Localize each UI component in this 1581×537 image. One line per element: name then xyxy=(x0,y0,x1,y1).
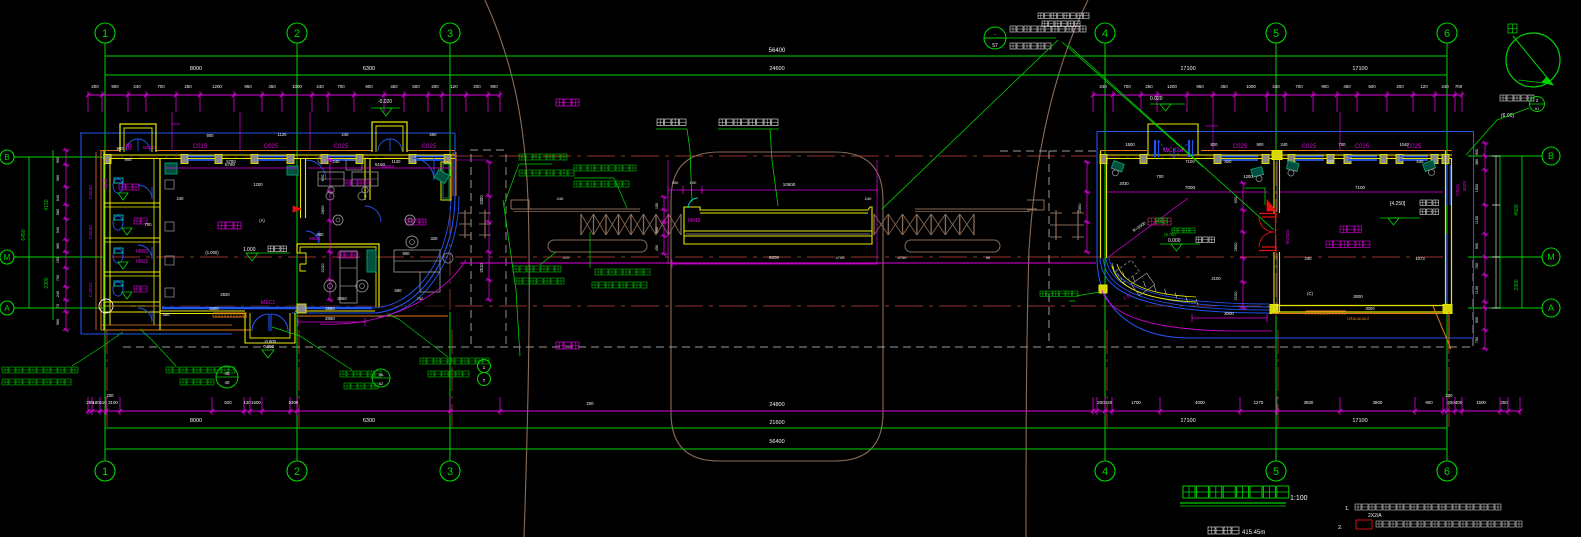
svg-text:200: 200 xyxy=(1446,393,1454,398)
axis4 top white note xyxy=(1038,13,1089,27)
left building room label office xyxy=(406,219,426,225)
factory boundary label bottom xyxy=(556,342,579,349)
svg-text:3: 3 xyxy=(447,466,453,478)
svg-text:24800: 24800 xyxy=(769,402,784,408)
right building east dim chains xyxy=(1475,141,1500,351)
top leader diagonal to middle door xyxy=(1068,45,1274,230)
left building interior door arcs xyxy=(306,158,434,222)
road edge curve left xyxy=(485,0,529,537)
svg-text:500: 500 xyxy=(412,84,420,89)
svg-text:3000: 3000 xyxy=(1224,311,1234,316)
svg-text:200: 200 xyxy=(107,393,115,398)
svg-text:900: 900 xyxy=(365,84,373,89)
right building leader notes inside xyxy=(1156,218,1195,237)
svg-text:1100: 1100 xyxy=(1475,286,1479,294)
svg-text:21600: 21600 xyxy=(769,420,784,426)
area note xyxy=(1208,527,1265,536)
svg-text:C5040: C5040 xyxy=(88,185,94,199)
svg-text:450: 450 xyxy=(1220,84,1228,89)
svg-text:120: 120 xyxy=(450,84,458,89)
left building apron line orange xyxy=(297,315,448,317)
north arrow xyxy=(1506,24,1560,87)
svg-text:960: 960 xyxy=(56,319,60,325)
left building room label reception xyxy=(338,252,358,258)
callout auto sensing gate xyxy=(718,119,779,206)
grid axis M horizontal right xyxy=(1468,248,1560,266)
svg-text:8000: 8000 xyxy=(769,255,780,260)
svg-text:410: 410 xyxy=(99,400,107,405)
svg-text:70: 70 xyxy=(56,304,60,308)
svg-text:5780: 5780 xyxy=(226,159,236,164)
svg-text:2300: 2300 xyxy=(44,277,50,288)
svg-text:450: 450 xyxy=(390,84,398,89)
left building room label meeting xyxy=(344,180,371,186)
svg-text:3500: 3500 xyxy=(1304,400,1314,405)
dimension tick row bottom right xyxy=(1091,397,1522,415)
svg-text:2850: 2850 xyxy=(325,306,335,311)
axis datum line A (dark red dash-dot) xyxy=(455,305,1270,307)
svg-text:1073: 1073 xyxy=(1415,256,1425,261)
svg-text:200: 200 xyxy=(473,84,481,89)
axis datum line M (dark red dash-dot) xyxy=(112,256,1443,258)
axis datum verticals below buildings xyxy=(107,330,1449,427)
gate slot right (stadium) xyxy=(905,240,1000,252)
svg-text:2510: 2510 xyxy=(479,263,484,273)
svg-text:C040: C040 xyxy=(103,178,108,189)
svg-text:C025: C025 xyxy=(1233,144,1248,150)
svg-text:1: 1 xyxy=(102,466,108,478)
right building ramp dashed boxes xyxy=(1116,260,1155,296)
svg-text:560: 560 xyxy=(395,288,403,293)
right building west wall xyxy=(1099,151,1107,293)
sliding fence right (X pattern) xyxy=(874,214,974,235)
svg-text:900: 900 xyxy=(403,251,411,256)
svg-text:1150: 1150 xyxy=(1475,216,1479,224)
svg-text:320: 320 xyxy=(431,236,439,241)
svg-text:650: 650 xyxy=(320,174,325,181)
svg-text:C025: C025 xyxy=(1455,184,1461,196)
grid axis B horizontal left xyxy=(0,150,103,164)
svg-text:[4.250]: [4.250] xyxy=(1390,201,1406,207)
svg-text:900: 900 xyxy=(655,227,659,233)
left building floor level mark xyxy=(243,246,290,261)
grid axis A horizontal right xyxy=(1468,299,1560,317)
svg-text:1120: 1120 xyxy=(277,132,287,137)
svg-text:6300: 6300 xyxy=(289,400,299,405)
svg-text:560: 560 xyxy=(56,209,60,215)
svg-text:240: 240 xyxy=(557,196,564,201)
svg-text:120: 120 xyxy=(1420,84,1428,89)
svg-text:C025: C025 xyxy=(1407,144,1422,150)
right building bottom hatch strip xyxy=(1306,311,1346,315)
callout curve wall xyxy=(388,314,491,386)
svg-text:57: 57 xyxy=(992,43,998,49)
svg-text:17100: 17100 xyxy=(1352,418,1367,424)
svg-text:2850: 2850 xyxy=(325,316,335,321)
svg-text:56400: 56400 xyxy=(769,439,784,445)
right building top wall xyxy=(1100,151,1452,164)
svg-text:700: 700 xyxy=(1475,263,1479,269)
svg-text:(6.00): (6.00) xyxy=(1164,232,1176,237)
svg-text:6300: 6300 xyxy=(363,66,375,72)
svg-text:4: 4 xyxy=(1102,28,1108,40)
svg-text:2X2/A: 2X2/A xyxy=(1368,513,1382,519)
svg-text:C025: C025 xyxy=(422,144,437,150)
svg-text:M: M xyxy=(4,253,11,262)
svg-text:4150: 4150 xyxy=(44,199,50,210)
svg-text:3300: 3300 xyxy=(209,306,219,311)
grid axis 4 vertical xyxy=(1104,43,1106,461)
svg-text:150: 150 xyxy=(655,203,659,209)
svg-text:700: 700 xyxy=(337,84,345,89)
dimension tick row bottom left xyxy=(86,397,502,415)
callout ground sensor xyxy=(574,165,636,208)
svg-text:5: 5 xyxy=(1273,28,1279,40)
svg-text:-0.800: -0.800 xyxy=(264,339,277,344)
svg-text:250: 250 xyxy=(1500,400,1508,405)
svg-text:2830: 2830 xyxy=(220,292,230,297)
svg-text:360: 360 xyxy=(56,243,60,249)
svg-text:400: 400 xyxy=(1455,400,1463,405)
top callout text block xyxy=(1006,26,1086,49)
svg-text:6: 6 xyxy=(1444,28,1450,40)
site boundary dashed xyxy=(123,150,1473,347)
svg-text:1000: 1000 xyxy=(1246,84,1256,89)
grid bubble 3 bottom xyxy=(440,461,460,481)
svg-text:2800: 2800 xyxy=(320,205,325,215)
svg-text:A: A xyxy=(4,304,10,313)
svg-text:C025: C025 xyxy=(1355,144,1370,150)
right building entry bay MC024 xyxy=(1148,124,1198,158)
svg-text:900: 900 xyxy=(111,84,119,89)
grid bubble 3 top xyxy=(440,23,460,43)
grid axis 6 vertical xyxy=(1446,43,1448,461)
svg-text:M015: M015 xyxy=(688,218,701,224)
svg-text:9020: 9020 xyxy=(1462,180,1467,191)
svg-text:960: 960 xyxy=(56,175,60,181)
svg-text:1500: 1500 xyxy=(1475,184,1479,192)
svg-text:(A): (A) xyxy=(259,218,265,223)
svg-text:900: 900 xyxy=(490,84,498,89)
right building bottom interior dim xyxy=(1192,311,1267,322)
svg-text:M022: M022 xyxy=(143,145,155,151)
svg-text:M1524: M1524 xyxy=(1285,229,1291,244)
svg-text:(C): (C) xyxy=(1307,291,1313,296)
svg-text:540: 540 xyxy=(1417,159,1425,164)
svg-text:620: 620 xyxy=(224,400,232,405)
right building red double door xyxy=(1259,200,1291,251)
svg-text:3800: 3800 xyxy=(1373,400,1383,405)
callout door mid xyxy=(272,327,390,389)
svg-text:2100: 2100 xyxy=(1233,291,1238,301)
grid bubble 5 top xyxy=(1266,23,1286,43)
right storey dim frame green xyxy=(1500,156,1522,308)
svg-text:1200: 1200 xyxy=(253,182,263,187)
svg-text:450: 450 xyxy=(1343,84,1351,89)
axis datum line B (dark red dash-dot) xyxy=(455,155,1096,157)
top leader diagonal to guard room xyxy=(1062,42,1203,167)
svg-text:7100: 7100 xyxy=(1355,185,1366,190)
svg-text:240: 240 xyxy=(133,84,141,89)
svg-text:3100: 3100 xyxy=(108,400,118,405)
svg-text:240: 240 xyxy=(1099,84,1107,89)
center extra white labels xyxy=(557,196,908,260)
svg-text:M1C1: M1C1 xyxy=(261,300,276,306)
svg-text:700: 700 xyxy=(1455,84,1463,89)
svg-text:2350: 2350 xyxy=(1077,203,1082,213)
svg-text:17100: 17100 xyxy=(1352,66,1367,72)
left building room label main xyxy=(218,222,241,229)
svg-text:2100: 2100 xyxy=(320,263,325,273)
svg-text:900: 900 xyxy=(1475,243,1479,249)
right building exterior racks xyxy=(1050,210,1084,240)
svg-text:6450: 6450 xyxy=(21,229,27,240)
callout wall extension xyxy=(513,252,564,284)
left building exterior racks xyxy=(459,210,491,238)
gate rail left segment (brown) xyxy=(511,200,640,212)
driveway island arch xyxy=(671,152,883,461)
left building partition walls xyxy=(301,158,452,218)
left building extra dims xyxy=(117,132,439,317)
left building west rooms block (toilets) xyxy=(99,151,160,330)
grid axis 5 vertical xyxy=(1275,43,1277,461)
svg-text:900: 900 xyxy=(1475,317,1479,323)
left building inner office room xyxy=(297,231,424,326)
right building interior dim lines xyxy=(1077,160,1443,310)
toilet room labels xyxy=(88,178,149,297)
svg-text:240: 240 xyxy=(865,196,872,201)
svg-text:240: 240 xyxy=(342,132,350,137)
right building top windows xyxy=(1205,112,1428,160)
overall dimension line bottom total xyxy=(105,439,1447,449)
road edge curve right xyxy=(1026,0,1088,537)
callout sliding door xyxy=(656,119,692,202)
svg-text:8000: 8000 xyxy=(190,418,202,424)
svg-text:4000: 4000 xyxy=(1195,400,1205,405)
svg-text:700: 700 xyxy=(145,222,153,227)
left building top wall xyxy=(101,151,455,164)
sliding fence left (X pattern) xyxy=(581,214,681,235)
svg-text:1200: 1200 xyxy=(1167,84,1177,89)
svg-text:300: 300 xyxy=(672,180,679,185)
svg-text:1000: 1000 xyxy=(292,84,302,89)
right building bottom wall xyxy=(1270,305,1452,314)
svg-text:250: 250 xyxy=(184,84,192,89)
right building ramp at SW xyxy=(1112,263,1198,305)
left building west dim chain xyxy=(56,148,70,332)
gate canopy structure yellow xyxy=(684,198,872,244)
left storey dim frame green xyxy=(21,150,53,320)
callout bottom far left xyxy=(2,332,123,385)
svg-text:2300: 2300 xyxy=(479,195,484,205)
svg-text:-0.900: -0.900 xyxy=(262,344,275,349)
elevation marker top left xyxy=(371,99,400,116)
gate slot left (stadium) xyxy=(548,240,647,252)
left building interior vertical dim xyxy=(320,158,334,302)
svg-text:240: 240 xyxy=(1281,142,1289,147)
svg-text:200: 200 xyxy=(587,401,595,406)
left building blue outline xyxy=(81,132,459,334)
svg-text:940: 940 xyxy=(56,227,60,233)
svg-text:1500: 1500 xyxy=(1476,400,1486,405)
svg-text:1040: 1040 xyxy=(1399,142,1409,147)
svg-text:240: 240 xyxy=(1441,84,1449,89)
left building top windows xyxy=(172,112,443,160)
svg-text:900: 900 xyxy=(125,157,133,162)
svg-text:2100: 2100 xyxy=(1211,276,1221,281)
svg-text:200: 200 xyxy=(1396,84,1404,89)
left building entry bay 1 (top) xyxy=(120,124,156,152)
svg-text:45: 45 xyxy=(224,371,230,376)
left building bottom wall xyxy=(110,304,452,314)
right building extra dims xyxy=(1119,142,1425,299)
grid bubble 4 top xyxy=(1095,23,1115,43)
left building SE magenta arc xyxy=(320,260,466,324)
right building door leader xyxy=(1244,188,1265,205)
svg-text:(1.000): (1.000) xyxy=(205,250,219,255)
svg-text:4700: 4700 xyxy=(836,255,846,260)
grid bubble 5 bottom xyxy=(1266,461,1286,481)
svg-text:1120: 1120 xyxy=(391,159,401,164)
svg-text:C025: C025 xyxy=(334,144,349,150)
axis datum vertical axis5 through right building xyxy=(1275,162,1277,330)
svg-text:400: 400 xyxy=(163,312,171,317)
toilet fixtures cyan xyxy=(113,178,174,297)
overall dimension line top total xyxy=(105,48,1447,56)
svg-text:450: 450 xyxy=(268,84,276,89)
left building porch hatch strip xyxy=(213,313,247,317)
svg-text:01: 01 xyxy=(1535,106,1540,111)
gate area magenta dims xyxy=(655,160,877,268)
callout apron left xyxy=(140,329,238,388)
svg-text:3000: 3000 xyxy=(1353,294,1363,299)
svg-text:17100: 17100 xyxy=(1180,66,1195,72)
svg-text:2300: 2300 xyxy=(1514,279,1520,290)
axis datum vertical axis2 through left building xyxy=(296,160,298,330)
svg-text:700: 700 xyxy=(1123,84,1131,89)
axis datum vertical axis4 through right building xyxy=(1104,155,1106,335)
svg-text:240: 240 xyxy=(333,159,341,164)
grid axis B horizontal right xyxy=(1468,147,1560,165)
svg-text:1.000: 1.000 xyxy=(243,247,256,253)
svg-text:C5040: C5040 xyxy=(88,225,94,239)
svg-text:1: 1 xyxy=(102,28,108,40)
grid bubble 1 top xyxy=(95,23,115,43)
svg-text:24600: 24600 xyxy=(769,66,784,72)
svg-text:240: 240 xyxy=(316,84,324,89)
svg-text:0.020: 0.020 xyxy=(1150,96,1163,102)
detail bubble top xyxy=(984,27,1006,49)
svg-text:240: 240 xyxy=(1327,159,1335,164)
grid axis A horizontal left xyxy=(0,301,103,315)
notes line 1 xyxy=(1345,504,1501,519)
left building right end orange post xyxy=(453,152,456,196)
right building magenta outer arc xyxy=(1102,290,1272,331)
svg-text:1.: 1. xyxy=(1345,506,1350,512)
svg-text:500: 500 xyxy=(1368,84,1376,89)
svg-text:5: 5 xyxy=(1273,466,1279,478)
svg-text:900: 900 xyxy=(56,157,60,163)
svg-text:750: 750 xyxy=(1475,337,1479,343)
svg-text:2: 2 xyxy=(294,28,300,40)
svg-text:2: 2 xyxy=(294,466,300,478)
svg-text:3000: 3000 xyxy=(1365,306,1375,311)
svg-text:5A: 5A xyxy=(379,372,384,377)
grid bubble 4 bottom xyxy=(1095,461,1115,481)
left building interior dim lines magenta xyxy=(165,160,493,302)
svg-text:240: 240 xyxy=(1272,84,1280,89)
dimension segment labels bottom xyxy=(107,393,1454,424)
svg-text:C015: C015 xyxy=(193,144,208,150)
svg-text:56400: 56400 xyxy=(769,48,786,54)
svg-text:2030: 2030 xyxy=(1119,181,1129,186)
grid axis M horizontal left xyxy=(0,250,103,264)
svg-text:4: 4 xyxy=(1102,466,1108,478)
svg-text:C025: C025 xyxy=(1302,144,1317,150)
svg-text:1700: 1700 xyxy=(1131,400,1141,405)
svg-text:700: 700 xyxy=(56,275,60,281)
right building room label east (monitor) xyxy=(1326,226,1370,248)
axis datum vertical axis6 through right building xyxy=(1446,152,1448,313)
grid axis 2 vertical xyxy=(296,43,298,461)
callout stair right building xyxy=(1040,291,1100,303)
svg-text:6: 6 xyxy=(1444,466,1450,478)
grid bubble 6 bottom xyxy=(1437,461,1457,481)
svg-text:2.: 2. xyxy=(1338,525,1343,531)
section flag right xyxy=(1466,95,1545,155)
svg-text:1200: 1200 xyxy=(1243,174,1253,179)
right building room label west (guard) xyxy=(1148,218,1171,225)
left building entry bay 2 (top) xyxy=(372,122,407,170)
svg-text:17100: 17100 xyxy=(1180,418,1195,424)
svg-text:240: 240 xyxy=(177,196,185,201)
svg-text:250: 250 xyxy=(1145,84,1153,89)
svg-text:0.0: 0.0 xyxy=(563,255,569,260)
svg-text:8000: 8000 xyxy=(190,66,202,72)
svg-text:450: 450 xyxy=(655,245,659,251)
svg-text:nnn: nnn xyxy=(1069,298,1076,303)
long leader right of building xyxy=(503,200,520,356)
left building red axis mark xyxy=(293,206,301,212)
svg-text:900: 900 xyxy=(207,133,215,138)
left building scattered dims xyxy=(125,157,402,344)
svg-text:C025: C025 xyxy=(264,144,279,150)
svg-text:40: 40 xyxy=(224,380,230,385)
svg-text:640: 640 xyxy=(56,195,60,201)
svg-text:900: 900 xyxy=(1257,142,1265,147)
right building SE corner orange xyxy=(1433,306,1451,349)
svg-text:0.000: 0.000 xyxy=(1168,238,1181,244)
svg-text:1500: 1500 xyxy=(1125,142,1135,147)
svg-text:960: 960 xyxy=(117,146,125,151)
svg-text:2800: 2800 xyxy=(1233,242,1238,252)
grid bubble 2 bottom xyxy=(287,461,307,481)
svg-text:1500: 1500 xyxy=(251,400,261,405)
svg-text:900: 900 xyxy=(1321,84,1329,89)
notes line 2 xyxy=(1338,520,1522,531)
callout electric retractable gate xyxy=(590,232,650,288)
svg-text:950: 950 xyxy=(1196,84,1204,89)
svg-text:200: 200 xyxy=(91,84,99,89)
svg-text:M022: M022 xyxy=(136,259,149,265)
right building middle wall xyxy=(1272,151,1282,313)
svg-text:10500: 10500 xyxy=(783,182,796,187)
drawing title xyxy=(1180,486,1308,506)
svg-text:2650: 2650 xyxy=(337,296,347,301)
svg-text:820: 820 xyxy=(1225,159,1233,164)
svg-text:B: B xyxy=(4,153,9,162)
svg-text:820: 820 xyxy=(1211,142,1219,147)
